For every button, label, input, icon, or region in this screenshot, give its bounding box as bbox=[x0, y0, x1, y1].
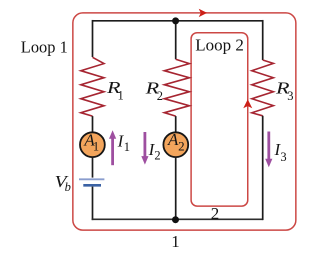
svg-text:3: 3 bbox=[287, 89, 293, 103]
svg-text:Loop 1: Loop 1 bbox=[21, 37, 68, 56]
loop 1 direction arrow (rightward on top edge) bbox=[200, 10, 207, 17]
wire: right branch upper (top corner to R3) bbox=[262, 20, 264, 60]
svg-text:b: b bbox=[65, 180, 71, 194]
resistor R3 bbox=[252, 60, 274, 116]
ammeter A2 bbox=[163, 132, 188, 157]
loop 1 path (red rounded rectangle) bbox=[73, 13, 296, 230]
wire: R3 to bottom corner bbox=[262, 116, 264, 220]
wire: A1 to battery bbox=[92, 157, 94, 178]
current arrow I3 (down) bbox=[267, 132, 270, 161]
svg-text:1: 1 bbox=[124, 140, 130, 154]
svg-text:1: 1 bbox=[118, 88, 124, 102]
svg-text:Loop 2: Loop 2 bbox=[195, 35, 244, 54]
wire: A2 to bottom node bbox=[175, 157, 177, 220]
wire: R1 to ammeter A1 bbox=[92, 116, 94, 132]
wire: battery to bottom corner bbox=[92, 187, 94, 221]
wire: R2 to ammeter A2 bbox=[175, 116, 177, 132]
wire: bottom horizontal bbox=[92, 218, 263, 220]
ammeter A1 bbox=[80, 132, 105, 157]
svg-text:3: 3 bbox=[280, 150, 286, 164]
wire: top horizontal bbox=[93, 20, 263, 22]
svg-text:2: 2 bbox=[211, 204, 220, 223]
svg-text:1: 1 bbox=[171, 232, 180, 251]
svg-text:2: 2 bbox=[178, 138, 185, 153]
loop 2 path (red rounded rectangle) bbox=[191, 33, 248, 206]
battery Vb plate long (top) bbox=[79, 178, 104, 180]
svg-text:1: 1 bbox=[93, 139, 99, 153]
node dot top junction bbox=[172, 17, 179, 24]
svg-text:2: 2 bbox=[154, 149, 160, 163]
current arrow I1 (up) bbox=[111, 138, 114, 165]
wire: middle branch top (node to R2) bbox=[175, 21, 177, 59]
current arrow I2 (down) bbox=[143, 132, 146, 158]
battery Vb plate short (bottom) bbox=[83, 184, 101, 187]
node dot bottom junction bbox=[172, 216, 179, 223]
wire: left branch upper (top corner to R1) bbox=[92, 20, 94, 57]
resistor R1 bbox=[81, 57, 104, 116]
svg-text:2: 2 bbox=[157, 89, 163, 103]
resistor R2 bbox=[164, 59, 189, 116]
loop 2 direction arrow (upward on right edge) bbox=[244, 100, 251, 107]
